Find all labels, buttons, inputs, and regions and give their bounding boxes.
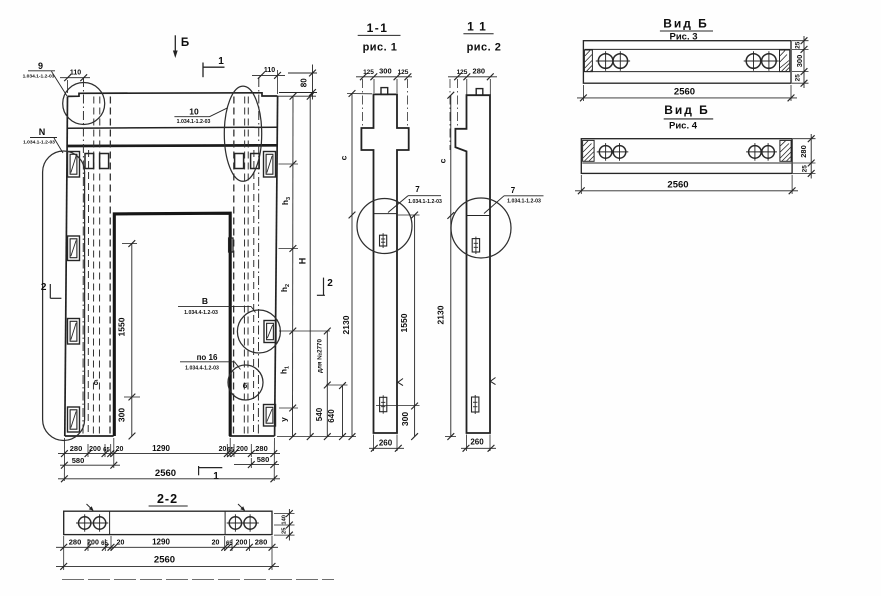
- dim chain B (overall H): [309, 96, 311, 436]
- svg-text:рис. 2: рис. 2: [467, 42, 502, 54]
- section 2-2 weld arrow right: [238, 504, 245, 510]
- main view: panel right outer edge: [275, 96, 278, 436]
- fig.2 lifting loop on top: [476, 89, 483, 96]
- svg-text:125: 125: [363, 69, 374, 76]
- svg-text:260: 260: [379, 439, 393, 448]
- svg-text:1.034.1-1.2-03: 1.034.1-1.2-03: [23, 140, 55, 146]
- fig.2 plate symbol upper: [472, 239, 479, 252]
- section 2-2 dim extension lines: [63, 536, 65, 570]
- svg-text:300: 300: [400, 412, 410, 426]
- dim chain C (dlya N2770 / 540): [326, 331, 328, 437]
- main view: embedded plate P3: [68, 319, 80, 345]
- svg-text:280: 280: [473, 67, 486, 76]
- fig.4 right dim chain 280/25: [810, 134, 812, 179]
- svg-text:580: 580: [72, 456, 85, 465]
- fig.1 right dim chain 1550/300: [414, 215, 416, 437]
- section mark 1 (top): [202, 63, 204, 78]
- main view: right column axis line b3: [247, 97, 249, 437]
- svg-text:2: 2: [327, 278, 333, 289]
- svg-text:280: 280: [69, 538, 82, 547]
- fig.3 right dim chain 25/300/25: [803, 36, 805, 88]
- svg-text:h3: h3: [280, 197, 292, 205]
- leader for label 9: [51, 71, 67, 96]
- section 2-2 lifting loop hole 2: [93, 517, 105, 529]
- section 2-2 dim row1: [56, 546, 278, 548]
- main view: panel top edge with corner notches: [68, 93, 278, 97]
- svg-text:260: 260: [470, 438, 484, 447]
- svg-text:140: 140: [282, 515, 288, 525]
- section mark 1 (bottom): [198, 466, 200, 475]
- fig.1 left dim chain c/2130: [351, 94, 353, 437]
- svg-text:рис. 1: рис. 1: [363, 42, 398, 54]
- fig.3 outer rectangle: [583, 41, 791, 83]
- svg-text:25: 25: [802, 165, 809, 173]
- section 2-2 lifting loop hole 1: [79, 517, 91, 529]
- fig.2 left dim chain c/2130: [450, 95, 452, 436]
- svg-text:с: с: [339, 155, 349, 160]
- svg-text:1: 1: [218, 56, 224, 67]
- svg-text:65: 65: [103, 448, 110, 454]
- svg-text:2560: 2560: [674, 87, 695, 98]
- fig.1 leader for label 7: [388, 196, 408, 213]
- svg-text:у: у: [279, 417, 289, 422]
- main view: detail circle at top-left corner: [63, 83, 105, 125]
- leader for label N: [54, 138, 63, 153]
- fig.4 right dim extensions: [793, 138, 816, 140]
- main view: embedded plate P5: [264, 152, 276, 178]
- svg-text:280: 280: [799, 145, 808, 158]
- main view dim row3 (2560): [58, 478, 280, 480]
- fig.2 arrow mark on right edge: [490, 378, 495, 385]
- svg-text:N: N: [39, 127, 46, 137]
- svg-text:65: 65: [101, 541, 108, 547]
- sheet fold line at bottom: [62, 579, 334, 581]
- main view dim row2 (580 right): [234, 464, 279, 466]
- main view: left column axis line a1: [82, 78, 85, 436]
- main view: right column axis line b1: [257, 78, 259, 436]
- svg-text:7: 7: [415, 185, 420, 194]
- svg-text:1290: 1290: [152, 444, 170, 453]
- svg-text:280: 280: [255, 444, 268, 453]
- dim chain D (640): [342, 386, 344, 437]
- section 2-2 inner separator line left: [109, 511, 111, 534]
- fig.3 right dim extensions: [792, 40, 809, 42]
- section 2-2 outer rectangle: [64, 511, 272, 534]
- fig.3 lifting loop hole 3: [746, 54, 761, 69]
- svg-text:1550: 1550: [117, 317, 127, 336]
- leader for label po 16: [235, 362, 241, 370]
- main view: detail circle at right plate P6: [237, 310, 280, 353]
- fig.2 bottom extension to fig1: [445, 436, 456, 438]
- view direction arrow B: [174, 35, 176, 56]
- svg-text:1.034.4-1.2-03: 1.034.4-1.2-03: [184, 310, 218, 316]
- main view bottom dim extension lines: [63, 438, 65, 481]
- fig.3 lifting loop hole 2: [613, 54, 628, 69]
- svg-text:25: 25: [795, 41, 802, 49]
- fig.2 plate symbol lower: [472, 397, 479, 412]
- section 2-2 weld arrow left: [87, 504, 94, 510]
- svg-text:2-2: 2-2: [157, 492, 178, 506]
- svg-text:280: 280: [255, 538, 268, 547]
- svg-text:25: 25: [795, 74, 802, 82]
- fig.3 left end block (hatched): [584, 50, 592, 72]
- svg-text:по 16: по 16: [197, 353, 218, 362]
- svg-text:300: 300: [795, 55, 804, 68]
- fig.1 top dim 125/300/125: [356, 76, 412, 78]
- svg-text:1.034.1-1.2-03: 1.034.1-1.2-03: [408, 199, 442, 205]
- dim chain A (h3/h2/h1/y): [292, 96, 295, 436]
- svg-text:110: 110: [70, 70, 81, 77]
- main view: embedded plate P4: [68, 407, 80, 432]
- fig.1 lifting loop on top: [381, 88, 388, 95]
- fig.1 plate symbol lower: [380, 397, 387, 411]
- svg-text:25: 25: [282, 527, 288, 534]
- svg-text:125: 125: [457, 69, 468, 76]
- svg-text:20: 20: [117, 540, 125, 547]
- svg-text:9: 9: [38, 61, 43, 71]
- main view dim row1 line: [58, 453, 280, 455]
- svg-text:Б: Б: [181, 37, 189, 49]
- main view: door opening outline (thick): [114, 213, 230, 436]
- main view: embedded plate P6: [264, 321, 276, 343]
- svg-text:20: 20: [212, 540, 220, 547]
- main view: item-N grouping loop (stadium) around left column: [43, 151, 85, 441]
- svg-text:б: б: [243, 381, 248, 390]
- fig.4 lifting loop hole 4: [762, 146, 775, 159]
- fig.4 inner bottom line: [582, 162, 791, 164]
- main view: left column axis line a5: [109, 97, 111, 437]
- fig.4 lifting loop hole 2: [613, 146, 626, 159]
- svg-text:80: 80: [300, 78, 309, 87]
- svg-text:20: 20: [116, 446, 124, 453]
- svg-text:1.034.1-1.2-03: 1.034.1-1.2-03: [23, 73, 55, 79]
- fig.2 joint line: [467, 215, 491, 217]
- dim 110 top-left: [60, 77, 90, 79]
- svg-text:110: 110: [264, 67, 275, 74]
- svg-text:h2: h2: [279, 284, 291, 292]
- main view: embedded plate P1: [68, 152, 80, 178]
- svg-text:2560: 2560: [667, 179, 688, 190]
- fig.2 detail circle: [451, 198, 511, 258]
- section 2-2 inner separator line right: [224, 511, 226, 534]
- fig.4 outer rectangle: [581, 139, 792, 174]
- fig.1 extension axes below top dim: [362, 79, 364, 126]
- main view: embedded plate P7: [264, 405, 276, 427]
- svg-text:2: 2: [41, 282, 47, 293]
- fig.3 lifting loop hole 4: [762, 54, 777, 69]
- svg-text:Вид Б: Вид Б: [664, 103, 710, 117]
- fig.4 left end block (hatched): [583, 140, 595, 161]
- svg-text:Рис. 4: Рис. 4: [669, 121, 698, 132]
- svg-text:65: 65: [227, 448, 234, 454]
- main view: detail circle at right column item b: [228, 365, 263, 400]
- svg-text:Вид Б: Вид Б: [663, 17, 709, 31]
- fig.2 column profile with left arm: [455, 95, 490, 433]
- main view: embedded square s2: [100, 154, 109, 169]
- svg-text:2560: 2560: [155, 468, 176, 479]
- svg-text:10: 10: [189, 107, 199, 117]
- svg-text:300: 300: [379, 67, 392, 76]
- fig.1 bottom dim 260: [373, 435, 375, 452]
- fig.2 top dim 125/280: [448, 76, 497, 78]
- svg-text:125: 125: [398, 69, 409, 76]
- main view right dims: shared bottom extension line: [277, 436, 356, 438]
- section 2-2 lifting loop hole 3: [229, 517, 241, 529]
- svg-text:2130: 2130: [436, 305, 446, 324]
- main view: left column axis line a2: [87, 150, 89, 436]
- leader for label B: [251, 306, 256, 312]
- fig.2 extension axes below top dim: [449, 79, 451, 150]
- svg-text:1550: 1550: [399, 313, 409, 332]
- svg-text:280: 280: [70, 444, 83, 453]
- fig.1 plate symbol upper: [380, 235, 387, 246]
- main view: left column axis line a4: [98, 97, 100, 437]
- svg-text:200: 200: [236, 540, 248, 547]
- svg-text:б: б: [94, 378, 99, 387]
- fig.2 bottom dim 260: [466, 435, 468, 452]
- svg-text:для №2770: для №2770: [317, 339, 324, 373]
- svg-text:1.034.1-1.2-03: 1.034.1-1.2-03: [177, 119, 211, 125]
- svg-text:1-1: 1-1: [367, 21, 389, 35]
- svg-text:7: 7: [511, 186, 516, 195]
- main view: embedded square s1: [85, 154, 94, 169]
- svg-text:640: 640: [327, 409, 336, 423]
- section 2-2 dim row2 (2560): [56, 565, 279, 567]
- dim 110 top-right: [252, 74, 285, 76]
- section 2-2 lifting loop hole 4: [244, 517, 256, 529]
- fig.3 inner bottom line: [585, 71, 791, 73]
- main view: lintel bottom line (thick): [67, 144, 277, 147]
- fig.3 right end block (hatched): [780, 50, 790, 72]
- svg-text:2560: 2560: [154, 555, 175, 566]
- svg-text:300: 300: [117, 408, 127, 422]
- main view: embedded square s3: [235, 154, 244, 169]
- main view: right column bottom edge: [229, 435, 274, 437]
- leader for label 10: [210, 108, 228, 117]
- main view: right column axis line b5: [233, 97, 235, 437]
- svg-text:200: 200: [89, 446, 101, 453]
- fig.4 bottom dim 2560: [580, 175, 582, 194]
- svg-text:540: 540: [315, 407, 324, 421]
- svg-text:20: 20: [219, 446, 227, 453]
- main view: embedded plate P2: [68, 236, 80, 261]
- svg-text:1.034.1-1.2-03: 1.034.1-1.2-03: [507, 199, 541, 205]
- fig.1 arrow mark on right edge: [398, 379, 403, 386]
- fig.3 lifting loop hole 1: [598, 54, 613, 69]
- svg-text:1.034.4-1.2-03: 1.034.4-1.2-03: [185, 365, 219, 371]
- svg-text:h1: h1: [279, 366, 291, 374]
- svg-text:В: В: [202, 296, 208, 306]
- fig.3 inner top line: [585, 48, 791, 50]
- main view: small plate on right door jamb: [229, 238, 233, 252]
- main view: left column axis line a3: [92, 97, 94, 437]
- main view: left column bottom edge: [65, 435, 114, 437]
- svg-text:1: 1: [213, 471, 219, 482]
- main view: right column axis line b4: [243, 97, 245, 437]
- fig.1 cross-shaped column profile: [361, 94, 408, 433]
- fig.1 joint line at lintel bottom: [374, 213, 398, 215]
- main view dim row2 (580 left): [60, 464, 120, 466]
- section 2-2 right dim chain 140/25: [274, 513, 295, 515]
- svg-text:65: 65: [226, 541, 233, 547]
- svg-text:200: 200: [87, 540, 99, 547]
- dim chain 1550/300 inside doorway: [131, 244, 133, 436]
- main view: lintel lower line (thin): [67, 127, 277, 128]
- svg-text:с: с: [438, 158, 448, 163]
- fig.1 detail circle: [357, 199, 412, 254]
- svg-text:580: 580: [257, 455, 270, 464]
- dim 80 at top right: [288, 72, 317, 74]
- main view: panel left outer edge: [65, 96, 68, 436]
- svg-text:1 1: 1 1: [467, 20, 487, 34]
- svg-text:1290: 1290: [152, 538, 170, 547]
- fig.3 bottom dim 2560: [582, 85, 584, 101]
- fig.4 lifting loop hole 1: [599, 146, 612, 159]
- main view: detail ellipse at top of right column: [224, 86, 261, 181]
- main view: right column axis line b2: [253, 150, 255, 436]
- main view: embedded square s4: [251, 154, 260, 169]
- fig.2 leader for label 7: [484, 196, 504, 214]
- svg-text:Н: Н: [298, 258, 308, 265]
- svg-text:200: 200: [236, 446, 248, 453]
- main view right dims: extension lines: [278, 95, 316, 97]
- fig.4 lifting loop hole 3: [749, 146, 762, 159]
- fig.4 right end block (hatched): [780, 140, 791, 161]
- svg-text:2130: 2130: [341, 315, 351, 334]
